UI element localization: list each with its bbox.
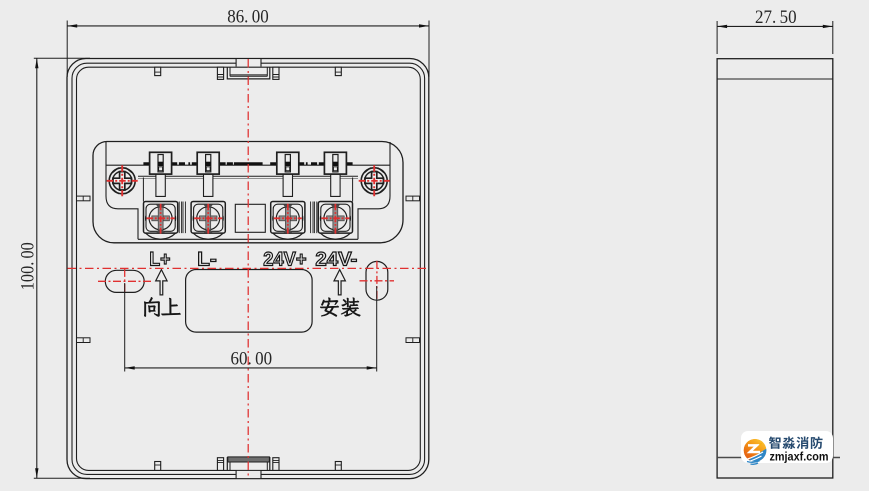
terminal screw 3	[271, 202, 305, 240]
horizontal red centerline	[68, 267, 429, 269]
wire clip 4	[324, 152, 346, 174]
divider bars left pair	[179, 202, 185, 234]
svg-text:24V-: 24V-	[315, 249, 357, 270]
up arrow right	[334, 270, 345, 295]
wire clip 1	[150, 152, 172, 174]
side view body	[717, 59, 833, 478]
front view case wall inner line	[77, 67, 421, 470]
terminal cavity bottom line	[138, 238, 358, 240]
right oval crosshair	[360, 280, 395, 282]
logo ball	[744, 439, 767, 464]
svg-text:100. 00: 100. 00	[17, 242, 38, 290]
svg-text:24V+: 24V+	[263, 249, 306, 270]
logo chinese text zhimiao xiaofang	[769, 436, 781, 448]
svg-text:27. 50: 27. 50	[755, 7, 797, 28]
terminal strip top line	[106, 164, 390, 166]
left wall tab y=337.8	[77, 338, 91, 343]
terminal screw 1	[144, 202, 178, 240]
bottom clip near center right	[273, 458, 279, 471]
left wall tab y=196.1	[77, 196, 91, 201]
side view bottom cap line	[717, 457, 840, 459]
svg-text:zmjaxf.com: zmjaxf.com	[770, 450, 829, 464]
logo ball tail	[747, 461, 760, 465]
wire clip leg x=287.8	[283, 174, 292, 196]
right wall tab y=196.1	[406, 196, 420, 201]
right mounting hole oval	[366, 261, 388, 300]
terminal cavity side ledges	[143, 178, 352, 202]
bottom center channel dark bar	[228, 457, 270, 462]
middle blank slot	[235, 204, 265, 232]
terminal block inner wall right	[358, 142, 390, 239]
terminal block inner wall left	[106, 142, 138, 239]
wire clip leg x=160.6	[156, 174, 165, 196]
label xiangshang (upward)	[144, 297, 159, 316]
wire clip leg x=335.4	[331, 174, 340, 196]
top center mounting tab	[236, 59, 261, 67]
right wall tab y=337.8	[406, 338, 420, 343]
top center channel outer	[227, 67, 269, 79]
central opening	[186, 270, 313, 333]
vertical red centerline	[247, 59, 249, 479]
wire clip 2	[197, 152, 219, 174]
dimension 27.50	[717, 7, 833, 54]
dimension 86.00	[67, 7, 429, 78]
svg-text:L-: L-	[197, 249, 217, 270]
top clip near center right	[273, 67, 279, 79]
side view top cap line	[717, 78, 833, 80]
top clip right	[335, 67, 341, 75]
front view outer case	[67, 59, 429, 479]
wire clip 3	[277, 152, 299, 174]
top clip near center left	[217, 67, 223, 79]
block screw right	[359, 165, 390, 196]
bottom center channel inner	[230, 462, 267, 470]
top clip left	[155, 67, 161, 75]
block screw left	[107, 165, 138, 196]
bottom clip left	[155, 462, 161, 471]
label anzhuang (install)	[320, 298, 339, 317]
heavy dashed clip centerline	[143, 162, 352, 165]
front view case wall middle line	[72, 63, 425, 474]
dimension 100.00	[17, 58, 90, 478]
bottom clip near center left	[217, 458, 223, 471]
left mounting hole oval	[105, 270, 144, 292]
dimension 60.00	[125, 283, 377, 372]
terminal screw 4	[318, 202, 352, 240]
wire clip leg x=208.2	[204, 174, 213, 196]
top center channel inner	[230, 67, 267, 76]
left oval crosshair	[98, 280, 151, 282]
svg-text:60. 00: 60. 00	[231, 349, 273, 370]
terminal screw 2	[191, 202, 225, 240]
terminal cavity top line	[138, 175, 358, 177]
svg-text:L+: L+	[149, 249, 170, 270]
bottom center mounting tab	[236, 470, 261, 478]
bottom clip right	[335, 462, 341, 471]
up arrow left	[156, 270, 167, 295]
divider bars right pair	[311, 202, 317, 234]
svg-text:86. 00: 86. 00	[227, 7, 269, 28]
terminal block outer shell	[93, 142, 403, 243]
bottom center channel outer	[227, 458, 269, 471]
